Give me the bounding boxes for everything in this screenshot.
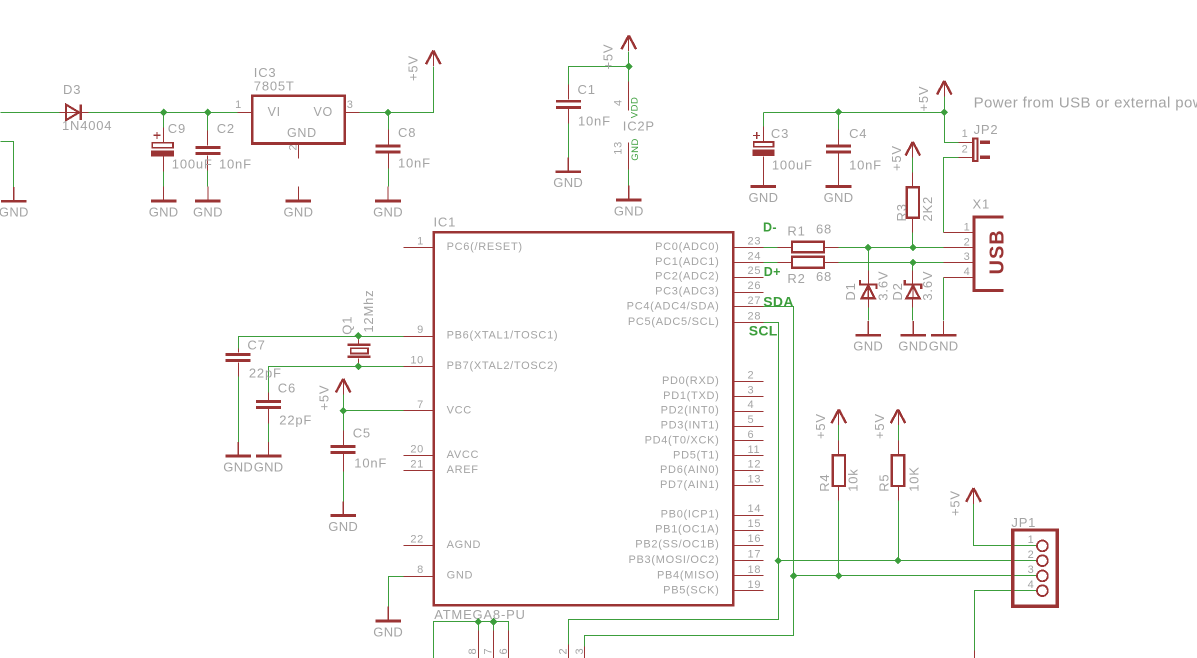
wire C9 bottom to ground	[163, 157, 165, 187]
svg-text:GND: GND	[149, 204, 179, 219]
svg-text:SDA: SDA	[763, 293, 793, 309]
svg-text:AGND: AGND	[447, 539, 482, 551]
wire pin 10 to crystal and C6	[269, 367, 404, 393]
svg-text:22pF: 22pF	[279, 412, 312, 427]
svg-text:C8: C8	[398, 125, 416, 140]
ground at IC2P	[616, 186, 642, 200]
svg-text:7: 7	[417, 399, 424, 411]
svg-text:PB3(MOSI/OC2): PB3(MOSI/OC2)	[628, 554, 719, 566]
svg-text:3: 3	[1028, 564, 1035, 576]
wire R2 to X1 pin 3 (D+)	[825, 262, 944, 264]
svg-text:GND: GND	[614, 203, 644, 218]
wire C6 bottom to ground	[268, 409, 270, 443]
wire D- node to D1	[868, 248, 870, 271]
svg-text:PC3(ADC3): PC3(ADC3)	[655, 286, 719, 298]
ground at C6	[256, 442, 282, 456]
+5V supply at JP1	[966, 488, 981, 504]
svg-text:4: 4	[748, 399, 755, 411]
+5V supply at C1/IC2P	[622, 36, 637, 52]
wire IC2P GND pin to ground	[628, 170, 630, 187]
svg-text:24: 24	[748, 250, 762, 262]
svg-text:21: 21	[410, 458, 424, 470]
resistor R3	[907, 187, 919, 218]
svg-text:PC1(ADC1): PC1(ADC1)	[655, 256, 719, 268]
wire pin 9 to crystal and C7	[239, 337, 404, 349]
wire D2 anode to ground	[912, 299, 914, 321]
junction R5/SCL node	[894, 557, 902, 565]
svg-text:GND: GND	[287, 126, 317, 140]
wire branch to bottom pin 7	[493, 622, 495, 631]
svg-text:GND: GND	[193, 204, 223, 219]
svg-text:PD6(AIN0): PD6(AIN0)	[660, 464, 719, 476]
svg-text:14: 14	[748, 503, 762, 515]
wire rail to C4 top	[838, 113, 840, 145]
svg-text:18: 18	[748, 564, 762, 576]
+5V supply at R4	[832, 410, 847, 426]
wire IC3 VO to +5V	[360, 67, 434, 113]
diode D3	[66, 105, 81, 121]
svg-text:8: 8	[467, 648, 479, 655]
wire R3 bottom to D- node	[912, 218, 914, 248]
svg-text:D+: D+	[764, 265, 781, 279]
capacitor C5 pins	[343, 431, 345, 472]
svg-text:+5V: +5V	[872, 413, 887, 439]
wire C5 bottom to ground	[343, 454, 345, 502]
ground at input	[1, 187, 27, 201]
resistor R2 pins	[778, 262, 839, 264]
svg-text:16: 16	[748, 533, 762, 545]
svg-text:PC5(ADC5/SCL): PC5(ADC5/SCL)	[628, 316, 720, 328]
svg-text:R1: R1	[787, 224, 805, 239]
wire X1 pin 4 to ground	[943, 278, 945, 321]
crystal Q1 pins	[358, 337, 360, 367]
zener D1 pins	[868, 271, 870, 308]
wire +5V to R4 top	[838, 425, 840, 441]
svg-text:SCL: SCL	[749, 323, 778, 339]
wire SCL net pin 28 down to bottom header	[569, 323, 779, 645]
svg-text:GND: GND	[853, 339, 883, 354]
wire +5V arrow to rail node	[944, 97, 946, 113]
junction R4/SDA node	[835, 572, 843, 580]
svg-text:22: 22	[410, 533, 424, 545]
junction C2 node	[204, 109, 212, 117]
svg-text:VO: VO	[314, 105, 333, 119]
svg-text:+5V: +5V	[601, 44, 616, 70]
wire D1 anode to ground	[868, 299, 870, 321]
wire node to C9 top	[163, 113, 165, 143]
svg-text:10nF: 10nF	[398, 156, 431, 171]
svg-text:C9: C9	[168, 121, 186, 136]
svg-text:R4: R4	[817, 474, 832, 492]
svg-text:D-: D-	[763, 221, 777, 235]
svg-text:10nF: 10nF	[578, 113, 611, 128]
ground at C1	[555, 158, 581, 172]
svg-text:2: 2	[748, 369, 755, 381]
svg-text:X1: X1	[973, 197, 991, 212]
svg-text:USB: USB	[987, 229, 1009, 274]
svg-text:D2: D2	[890, 282, 905, 300]
svg-text:GND: GND	[824, 190, 854, 205]
svg-text:1: 1	[964, 222, 971, 234]
capacitor C6	[256, 400, 281, 409]
svg-text:11: 11	[748, 444, 761, 456]
bottom part pins 2 3	[569, 645, 585, 658]
svg-text:100uF: 100uF	[772, 157, 813, 172]
wire D+ node to D2	[912, 263, 914, 271]
svg-text:R3: R3	[894, 203, 909, 221]
+5V supply at R5	[891, 410, 906, 426]
wire C2 bottom to ground	[207, 156, 209, 187]
resistor R4 pins	[838, 441, 840, 501]
svg-text:20: 20	[410, 444, 424, 456]
+5V supply at IC3 output	[426, 51, 441, 67]
svg-text:100uF: 100uF	[172, 156, 213, 171]
svg-text:13: 13	[613, 141, 625, 155]
svg-text:27: 27	[748, 295, 762, 307]
IC1 left pin stubs	[404, 248, 433, 577]
svg-text:2: 2	[558, 648, 570, 655]
junction C4 node	[835, 108, 843, 116]
svg-text:PC6(/RESET): PC6(/RESET)	[447, 241, 523, 253]
svg-text:1: 1	[962, 128, 969, 140]
capacitor C9 pins	[163, 128, 165, 172]
svg-text:PD7(AIN1): PD7(AIN1)	[660, 479, 719, 491]
+5V supply at USB power rail	[937, 81, 952, 97]
svg-text:PC4(ADC4/SDA): PC4(ADC4/SDA)	[627, 301, 720, 313]
ground at C4	[826, 172, 852, 186]
svg-text:2: 2	[288, 144, 300, 151]
capacitor C3 (electrolytic)	[753, 132, 775, 156]
svg-text:1N4004: 1N4004	[62, 118, 112, 133]
svg-text:GND: GND	[749, 190, 779, 205]
IC3 pins 1 3 2	[238, 113, 360, 159]
jumper JP2	[972, 138, 990, 162]
svg-text:3: 3	[347, 99, 354, 111]
wire pin 8 GND wire	[389, 577, 404, 607]
svg-text:PB0(ICP1): PB0(ICP1)	[661, 509, 720, 521]
svg-text:IC1: IC1	[434, 215, 457, 230]
svg-text:GND: GND	[0, 205, 29, 220]
resistor R1 pins	[778, 247, 839, 249]
ground at C5	[330, 501, 356, 515]
svg-text:C7: C7	[247, 337, 265, 352]
junction C8 node	[384, 109, 392, 117]
svg-text:GND: GND	[447, 570, 474, 582]
diode D3 pins	[60, 112, 89, 114]
svg-text:C4: C4	[849, 126, 867, 141]
wire bottom header bus	[434, 622, 509, 658]
svg-text:8: 8	[417, 564, 424, 576]
ground at C2	[195, 187, 221, 201]
junction crystal bottom node	[355, 363, 363, 371]
svg-text:PD5(T1): PD5(T1)	[673, 449, 719, 461]
svg-text:22pF: 22pF	[249, 365, 282, 380]
junction bottom node B	[490, 618, 498, 626]
svg-text:2: 2	[962, 144, 969, 156]
svg-text:3: 3	[574, 648, 586, 655]
junction C9 node	[160, 109, 168, 117]
svg-text:PB6(XTAL1/TOSC1): PB6(XTAL1/TOSC1)	[447, 330, 559, 342]
wire node to C8 top	[388, 113, 390, 145]
X1 pin stubs	[944, 233, 974, 278]
svg-text:6: 6	[748, 429, 755, 441]
svg-text:5: 5	[748, 414, 755, 426]
svg-text:AVCC: AVCC	[447, 449, 480, 461]
pin header JP1	[1013, 530, 1058, 606]
svg-text:C5: C5	[353, 426, 371, 441]
svg-text:VCC: VCC	[447, 404, 472, 416]
resistor R5	[892, 455, 904, 486]
svg-text:PD3(INT1): PD3(INT1)	[661, 420, 720, 432]
svg-text:+5V: +5V	[948, 490, 963, 516]
resistor R2	[792, 257, 824, 268]
capacitor C7 pins	[238, 349, 240, 377]
svg-text:C1: C1	[578, 82, 596, 97]
wire pin 7 VCC wire	[344, 410, 404, 412]
capacitor C8 pins	[388, 130, 390, 169]
svg-text:10nF: 10nF	[849, 157, 882, 172]
svg-text:10K: 10K	[907, 466, 922, 492]
capacitor C6 pins	[268, 393, 270, 424]
ground at X1 pin 4	[931, 321, 957, 335]
wire rail node to JP2 pin 1	[945, 113, 959, 143]
svg-text:GND: GND	[630, 138, 641, 161]
zener diode D1	[860, 280, 876, 298]
jumper JP2 pins	[959, 143, 973, 158]
svg-text:1: 1	[235, 99, 242, 111]
wire D3 cathode to IC3 VI	[89, 112, 238, 114]
wire SDA net pin 27 down to bottom header	[585, 307, 794, 647]
IC1 right pin stubs	[734, 248, 764, 591]
svg-text:JP2: JP2	[974, 122, 999, 137]
svg-text:26: 26	[748, 280, 762, 292]
capacitor C3 pins	[763, 127, 765, 188]
capacitor C4 pins	[838, 130, 840, 188]
svg-text:2: 2	[1028, 549, 1035, 561]
svg-text:GND: GND	[373, 204, 403, 219]
svg-text:D3: D3	[63, 82, 81, 97]
ground at C8	[375, 187, 401, 201]
svg-text:7805T: 7805T	[254, 79, 295, 94]
ground at D2	[900, 321, 926, 335]
svg-text:PD0(RXD): PD0(RXD)	[662, 375, 720, 387]
svg-text:PD1(TXD): PD1(TXD)	[663, 390, 719, 402]
svg-text:4: 4	[964, 266, 971, 278]
svg-text:VDD: VDD	[630, 97, 641, 119]
wire C7 bottom to ground	[238, 363, 240, 443]
capacitor C7	[226, 353, 251, 362]
svg-text:GND: GND	[328, 519, 358, 534]
IC2P pin 4 VDD	[628, 82, 630, 111]
svg-text:12Mhz: 12Mhz	[361, 290, 376, 333]
svg-text:PB4(MISO): PB4(MISO)	[657, 569, 720, 581]
junction rail/JP2 node	[941, 108, 949, 116]
wire +5V to VCC node	[343, 395, 345, 411]
crystal Q1	[348, 344, 371, 358]
junction D2/D+ node	[909, 259, 917, 267]
junction VCC node	[339, 407, 347, 415]
junction R3/D- node	[909, 244, 917, 252]
wire C1 bottom to ground	[568, 109, 570, 158]
JP1 pads and pin numbers	[1037, 541, 1048, 552]
wire C8 bottom to ground	[388, 154, 390, 187]
svg-text:15: 15	[748, 518, 762, 530]
wire JP2 pin 2 to X1 pin 1	[944, 158, 959, 233]
wire +5V to JP1 pin 1	[974, 504, 1037, 546]
wire JP1 pin 4 down	[975, 591, 1037, 651]
svg-text:+5V: +5V	[316, 385, 331, 411]
capacitor C5	[331, 445, 356, 454]
svg-text:PB1(OC1A): PB1(OC1A)	[655, 524, 719, 536]
svg-text:2: 2	[964, 236, 971, 248]
svg-text:25: 25	[748, 265, 762, 277]
svg-text:23: 23	[748, 236, 762, 248]
svg-text:Q1: Q1	[340, 316, 355, 335]
svg-text:Power from USB or external pow: Power from USB or external power supply	[974, 95, 1197, 112]
capacitor C8	[376, 144, 401, 153]
svg-text:C6: C6	[278, 381, 296, 396]
svg-text:12: 12	[748, 459, 762, 471]
svg-text:68: 68	[816, 269, 832, 284]
wire pin 24 to R2	[764, 262, 793, 264]
junction crystal top node	[355, 332, 363, 340]
svg-text:PB5(SCK): PB5(SCK)	[663, 584, 719, 596]
resistor R1	[792, 242, 824, 253]
svg-text:+5V: +5V	[813, 413, 828, 439]
capacitor C2	[195, 146, 220, 155]
svg-text:PD2(INT0): PD2(INT0)	[661, 405, 720, 417]
svg-text:GND: GND	[553, 175, 583, 190]
ground at IC3	[286, 187, 312, 201]
junction SCL branch node	[774, 557, 782, 565]
wire node to C2 top	[207, 113, 209, 146]
svg-text:GND: GND	[254, 460, 284, 475]
wire input return to ground	[1, 142, 14, 188]
svg-text:10nF: 10nF	[219, 156, 252, 171]
USB connector X1	[972, 216, 1003, 292]
svg-text:+5V: +5V	[406, 55, 421, 81]
svg-text:VI: VI	[268, 105, 281, 119]
wire +5V to R3 top	[912, 158, 914, 173]
voltage regulator IC3 7805T	[252, 96, 345, 144]
resistor R4	[833, 455, 845, 486]
svg-text:3: 3	[964, 251, 971, 263]
svg-text:GND: GND	[284, 204, 314, 219]
svg-text:PB7(XTAL2/TOSC2): PB7(XTAL2/TOSC2)	[447, 360, 559, 372]
zener D2 pins	[912, 271, 914, 308]
svg-text:R5: R5	[876, 474, 891, 492]
svg-text:6: 6	[498, 648, 510, 655]
svg-text:2K2: 2K2	[920, 196, 935, 222]
svg-text:+5V: +5V	[889, 145, 904, 171]
svg-text:PB2(SS/OC1B): PB2(SS/OC1B)	[635, 539, 719, 551]
wire rail to C3 top	[763, 113, 765, 142]
svg-text:3.6V: 3.6V	[876, 271, 891, 301]
wire +5V node to IC2P VDD	[628, 52, 630, 82]
svg-text:1: 1	[1028, 534, 1035, 546]
wire +5V rail over C3 C4	[764, 112, 945, 114]
ground at D1	[855, 321, 881, 335]
wire pin 23 to R1	[764, 247, 793, 249]
svg-text:PC0(ADC0): PC0(ADC0)	[655, 241, 719, 253]
wire R1 to X1 pin 2 (D-)	[825, 247, 944, 249]
wire R4 bottom to SDA row	[838, 486, 840, 576]
svg-text:3.6V: 3.6V	[920, 271, 935, 301]
IC2P pin 13 GND	[628, 143, 630, 170]
svg-text:1: 1	[417, 236, 424, 248]
capacitor C1	[556, 100, 581, 109]
wire +5V to R5 top	[898, 425, 900, 441]
svg-text:JP1: JP1	[1011, 515, 1036, 530]
ground at C9	[151, 187, 177, 201]
junction D1/D- node	[864, 244, 872, 252]
svg-text:ATMEGA8-PU: ATMEGA8-PU	[434, 607, 526, 622]
svg-text:GND: GND	[929, 339, 959, 354]
svg-text:13: 13	[748, 473, 762, 485]
svg-text:7: 7	[483, 648, 495, 655]
ground at IC1 pin 8	[375, 607, 401, 621]
zener diode D2	[905, 280, 921, 298]
wire C1 top to +5V node	[569, 67, 629, 100]
resistor R3 pins	[912, 173, 914, 233]
junction C1/IC2P node	[625, 63, 633, 71]
capacitor C9 (electrolytic)	[151, 132, 174, 157]
svg-text:C3: C3	[771, 126, 789, 141]
svg-text:4: 4	[1028, 579, 1035, 591]
svg-text:PC2(ADC2): PC2(ADC2)	[655, 271, 719, 283]
svg-text:GND: GND	[898, 339, 928, 354]
wire VCC node to C5 top	[343, 411, 345, 431]
microcontroller IC1 box	[434, 232, 734, 605]
JP1 pin 4 stub	[974, 651, 976, 658]
svg-text:IC2P: IC2P	[623, 118, 655, 133]
svg-text:68: 68	[816, 222, 832, 237]
svg-text:PD4(T0/XCK): PD4(T0/XCK)	[645, 435, 720, 447]
svg-text:GND: GND	[223, 460, 253, 475]
svg-text:3: 3	[748, 384, 755, 396]
svg-text:28: 28	[748, 310, 762, 322]
svg-text:D1: D1	[843, 282, 858, 300]
capacitor C2 pins	[207, 131, 209, 171]
capacitor C4	[826, 145, 851, 154]
wire SDA row to JP1 pin 3	[794, 575, 1037, 577]
svg-text:9: 9	[417, 324, 424, 336]
ground at C3	[751, 172, 777, 186]
junction SDA branch node	[790, 572, 798, 580]
svg-text:10: 10	[410, 355, 424, 367]
svg-text:GND: GND	[373, 624, 403, 639]
svg-text:17: 17	[748, 549, 762, 561]
svg-text:AREF: AREF	[447, 464, 479, 476]
ground at C7	[225, 442, 251, 456]
capacitor C1 pins	[568, 85, 570, 124]
svg-text:C2: C2	[217, 121, 235, 136]
resistor R5 pins	[898, 441, 900, 501]
junction bottom node A	[474, 618, 482, 626]
bottom part pins 8 7 6	[479, 631, 509, 658]
svg-text:19: 19	[748, 579, 762, 591]
wire input to D3 anode	[1, 112, 60, 114]
wire R5 bottom to SCL row	[898, 486, 900, 561]
wire SCL row to JP1 pin 2	[779, 560, 1037, 562]
svg-text:+5V: +5V	[916, 86, 931, 112]
svg-text:10k: 10k	[846, 468, 861, 491]
+5V supply at R3	[906, 142, 921, 158]
svg-text:4: 4	[613, 99, 625, 106]
wire branch to bottom pin 8	[478, 622, 480, 631]
svg-text:R2: R2	[787, 271, 805, 286]
svg-text:10nF: 10nF	[354, 456, 387, 471]
